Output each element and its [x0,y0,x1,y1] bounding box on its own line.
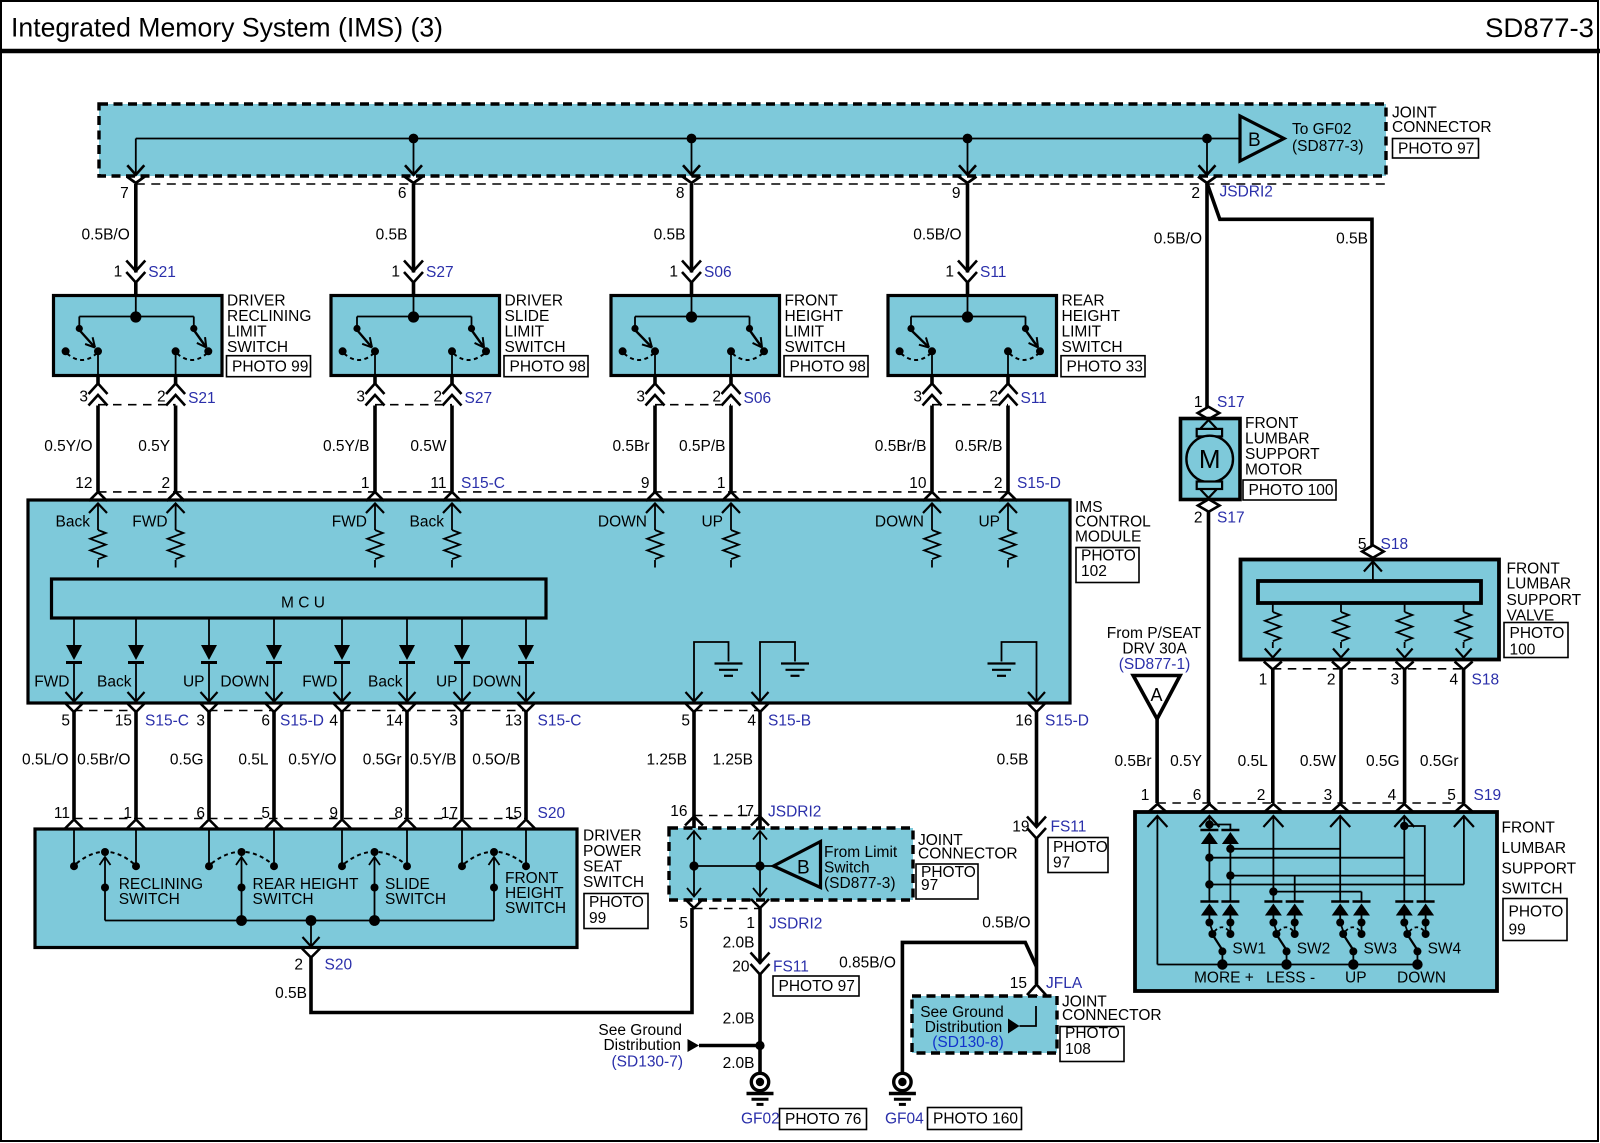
svg-text:0.5W: 0.5W [1300,753,1337,770]
svg-text:7: 7 [120,185,129,202]
svg-text:0.5B/O: 0.5B/O [913,227,961,244]
svg-text:MORE +: MORE + [1194,970,1254,987]
svg-text:3: 3 [913,388,922,405]
svg-text:SUPPORT: SUPPORT [1507,592,1582,609]
svg-text:Integrated Memory System (IMS): Integrated Memory System (IMS) (3) [11,13,443,43]
svg-text:0.5B/O: 0.5B/O [1154,231,1202,248]
svg-text:SWITCH: SWITCH [1062,339,1123,356]
svg-text:DOWN: DOWN [1397,970,1446,987]
svg-text:SW2: SW2 [1297,940,1331,957]
svg-text:1: 1 [123,805,132,822]
svg-text:0.5W: 0.5W [410,438,447,455]
svg-text:S11: S11 [980,264,1006,281]
svg-text:LUMBAR: LUMBAR [1502,840,1567,857]
svg-text:0.5R/B: 0.5R/B [955,438,1002,455]
svg-text:PHOTO 100: PHOTO 100 [1249,482,1334,499]
svg-text:1: 1 [717,475,726,492]
svg-text:1: 1 [945,263,954,280]
svg-text:GF04: GF04 [885,1111,924,1128]
svg-text:11: 11 [54,805,70,822]
svg-text:15: 15 [115,713,132,730]
svg-text:8: 8 [394,805,403,822]
svg-text:LIMIT: LIMIT [227,324,267,341]
svg-text:RECLINING: RECLINING [227,308,311,325]
svg-text:M: M [1199,444,1221,474]
svg-text:PHOTO 98: PHOTO 98 [510,359,586,376]
svg-text:0.5B: 0.5B [1336,231,1368,248]
svg-text:4: 4 [1388,787,1397,804]
svg-text:2: 2 [433,388,442,405]
svg-text:1: 1 [1259,672,1268,689]
svg-text:6: 6 [1193,787,1202,804]
svg-text:4: 4 [1449,672,1458,689]
svg-text:2.0B: 2.0B [723,935,755,952]
svg-text:16: 16 [1015,713,1032,730]
svg-text:FWD: FWD [332,514,367,531]
svg-text:5: 5 [681,713,690,730]
svg-text:S15-C: S15-C [461,475,505,492]
svg-text:DRIVER: DRIVER [583,828,642,845]
svg-text:13: 13 [505,713,522,730]
svg-text:PHOTO: PHOTO [1053,839,1108,856]
svg-text:0.85B/O: 0.85B/O [839,955,896,972]
svg-text:3: 3 [196,713,205,730]
svg-text:6: 6 [261,713,270,730]
svg-text:20: 20 [732,959,750,976]
svg-text:4: 4 [747,713,756,730]
svg-text:SWITCH: SWITCH [505,900,566,917]
svg-text:S27: S27 [465,390,493,407]
svg-text:CONNECTOR: CONNECTOR [1392,119,1492,136]
svg-text:0.5B: 0.5B [997,752,1029,769]
svg-text:3: 3 [449,713,458,730]
svg-text:0.5Br/B: 0.5Br/B [875,438,927,455]
svg-text:PHOTO 98: PHOTO 98 [790,359,866,376]
svg-text:19: 19 [1012,819,1029,836]
svg-text:LIMIT: LIMIT [785,324,825,341]
svg-text:FWD: FWD [34,674,69,691]
svg-text:0.5L: 0.5L [1238,753,1269,770]
svg-text:1: 1 [1141,787,1150,804]
svg-text:0.5G: 0.5G [170,752,204,769]
svg-text:PHOTO 33: PHOTO 33 [1067,359,1143,376]
svg-text:2: 2 [1327,672,1336,689]
svg-text:1.25B: 1.25B [646,752,687,769]
svg-text:From Limit: From Limit [824,844,898,861]
svg-text:FS11: FS11 [1051,819,1087,836]
svg-text:JSDRI2: JSDRI2 [768,804,821,821]
svg-text:S06: S06 [744,390,772,407]
svg-text:1.25B: 1.25B [712,752,753,769]
svg-text:FWD: FWD [302,674,337,691]
svg-text:FWD: FWD [132,514,167,531]
svg-text:6: 6 [196,805,205,822]
svg-text:LIMIT: LIMIT [1062,324,1102,341]
svg-text:0.5Y/O: 0.5Y/O [44,438,92,455]
svg-text:S27: S27 [426,264,454,281]
svg-text:SWITCH: SWITCH [785,339,846,356]
svg-text:Back: Back [368,674,403,691]
svg-text:SWITCH: SWITCH [385,891,446,908]
svg-text:HEIGHT: HEIGHT [1062,308,1121,325]
svg-text:PHOTO: PHOTO [1510,625,1565,642]
svg-text:JFLA: JFLA [1046,975,1083,992]
svg-text:JSDRI2: JSDRI2 [1220,184,1273,201]
svg-text:3: 3 [356,388,365,405]
svg-text:PHOTO 97: PHOTO 97 [779,978,855,995]
svg-text:(SD877-3): (SD877-3) [824,875,896,892]
svg-text:PHOTO: PHOTO [589,894,644,911]
svg-text:SWITCH: SWITCH [583,874,644,891]
svg-text:17: 17 [737,803,754,820]
svg-text:S21: S21 [188,390,216,407]
svg-text:2: 2 [989,388,998,405]
svg-text:0.5Br: 0.5Br [612,438,649,455]
svg-text:S15-C: S15-C [145,713,189,730]
svg-text:Back: Back [56,514,91,531]
svg-text:2.0B: 2.0B [723,1055,755,1072]
svg-text:9: 9 [329,805,338,822]
svg-text:2.0B: 2.0B [723,1011,755,1028]
svg-text:0.5Gr: 0.5Gr [363,752,402,769]
svg-text:S21: S21 [148,264,176,281]
svg-text:DRIVER: DRIVER [227,292,286,309]
svg-text:S06: S06 [704,264,732,281]
svg-text:14: 14 [386,713,404,730]
svg-text:SWITCH: SWITCH [505,339,566,356]
svg-text:S18: S18 [1381,536,1409,553]
svg-text:0.5P/B: 0.5P/B [679,438,726,455]
svg-text:SW4: SW4 [1428,940,1462,957]
svg-text:FRONT: FRONT [785,292,839,309]
svg-text:FRONT: FRONT [1502,820,1556,837]
svg-text:1: 1 [114,263,123,280]
svg-text:17: 17 [441,805,458,822]
svg-text:(SD877-3): (SD877-3) [1292,138,1364,155]
svg-text:CONNECTOR: CONNECTOR [918,846,1018,863]
svg-text:3: 3 [1390,672,1399,689]
svg-text:SUPPORT: SUPPORT [1502,860,1577,877]
svg-text:5: 5 [261,805,270,822]
svg-text:0.5G: 0.5G [1366,753,1400,770]
svg-text:9: 9 [641,475,650,492]
svg-text:PHOTO: PHOTO [1065,1025,1120,1042]
svg-text:DOWN: DOWN [875,514,924,531]
svg-text:PHOTO 99: PHOTO 99 [232,359,308,376]
svg-text:SW1: SW1 [1232,940,1266,957]
svg-text:3: 3 [1324,787,1333,804]
svg-text:DRV 30A: DRV 30A [1122,640,1187,657]
svg-text:PHOTO 160: PHOTO 160 [933,1111,1018,1128]
svg-text:100: 100 [1510,642,1536,659]
svg-text:0.5L/O: 0.5L/O [22,752,69,769]
svg-text:SLIDE: SLIDE [505,308,550,325]
svg-text:Back: Back [410,514,445,531]
svg-text:99: 99 [589,910,606,927]
svg-text:SD877-3: SD877-3 [1485,13,1594,43]
svg-text:2: 2 [1191,185,1200,202]
svg-text:UP: UP [701,514,723,531]
svg-text:PHOTO 76: PHOTO 76 [785,1111,861,1128]
svg-text:B: B [1248,130,1261,151]
svg-text:UP: UP [436,674,458,691]
svg-text:MOTOR: MOTOR [1245,461,1302,478]
svg-text:PHOTO: PHOTO [1081,547,1136,564]
svg-text:S20: S20 [538,805,566,822]
svg-text:Switch: Switch [824,860,870,877]
svg-text:S15-D: S15-D [280,713,324,730]
svg-text:S19: S19 [1474,787,1502,804]
svg-text:0.5Y/B: 0.5Y/B [410,752,457,769]
svg-text:S15-B: S15-B [768,713,811,730]
svg-text:S20: S20 [325,957,353,974]
svg-text:S15-D: S15-D [1045,713,1089,730]
svg-text:UP: UP [978,514,1000,531]
svg-text:SWITCH: SWITCH [253,891,314,908]
svg-text:0.5B: 0.5B [376,227,408,244]
svg-text:SWITCH: SWITCH [1502,881,1563,898]
svg-text:1: 1 [391,263,400,280]
svg-text:PHOTO: PHOTO [1509,904,1564,921]
svg-text:B: B [797,858,810,879]
svg-text:LESS -: LESS - [1266,970,1315,987]
svg-text:1: 1 [746,915,755,932]
svg-text:6: 6 [398,185,407,202]
svg-text:15: 15 [1010,975,1027,992]
svg-text:DRIVER: DRIVER [505,292,564,309]
svg-text:S15-D: S15-D [1017,475,1061,492]
svg-text:MODULE: MODULE [1075,528,1141,545]
svg-text:0.5Y/O: 0.5Y/O [288,752,336,769]
svg-text:3: 3 [79,388,88,405]
svg-text:DOWN: DOWN [472,674,521,691]
svg-text:M C U: M C U [281,595,325,612]
svg-text:SWITCH: SWITCH [119,891,180,908]
svg-text:SEAT: SEAT [583,859,623,876]
svg-text:2: 2 [1194,509,1203,526]
svg-text:CONNECTOR: CONNECTOR [1062,1007,1162,1024]
svg-text:2: 2 [1257,787,1266,804]
svg-text:2: 2 [994,475,1003,492]
svg-text:0.5B/O: 0.5B/O [982,915,1030,932]
svg-text:(SD130-7): (SD130-7) [612,1054,684,1071]
svg-text:SWITCH: SWITCH [227,339,288,356]
svg-text:POWER: POWER [583,843,642,860]
svg-text:15: 15 [505,805,522,822]
svg-text:FS11: FS11 [773,959,809,976]
svg-text:10: 10 [909,475,927,492]
svg-text:1: 1 [361,475,370,492]
svg-text:2: 2 [294,957,303,974]
svg-text:4: 4 [329,713,338,730]
svg-text:(SD877-1): (SD877-1) [1119,656,1191,673]
svg-text:108: 108 [1065,1041,1091,1058]
svg-text:REAR: REAR [1062,292,1105,309]
svg-text:UP: UP [1345,970,1367,987]
svg-text:2: 2 [161,475,170,492]
svg-text:1: 1 [669,263,678,280]
svg-text:0.5Y/B: 0.5Y/B [323,438,370,455]
svg-text:DOWN: DOWN [598,514,647,531]
svg-text:Distribution: Distribution [603,1037,681,1054]
svg-text:2: 2 [157,388,166,405]
svg-text:S15-C: S15-C [538,713,582,730]
svg-text:102: 102 [1081,563,1107,580]
svg-text:JSDRI2: JSDRI2 [769,916,822,933]
svg-text:11: 11 [430,475,446,492]
svg-text:9: 9 [952,185,961,202]
svg-text:16: 16 [670,803,687,820]
svg-text:HEIGHT: HEIGHT [785,308,844,325]
svg-text:S17: S17 [1217,394,1245,411]
svg-text:97: 97 [1053,854,1070,871]
svg-text:UP: UP [183,674,205,691]
svg-text:0.5B/O: 0.5B/O [82,227,130,244]
svg-text:5: 5 [1447,787,1456,804]
svg-text:0.5Y: 0.5Y [138,438,170,455]
svg-text:To GF02: To GF02 [1292,121,1351,138]
svg-text:S18: S18 [1472,672,1500,689]
svg-text:0.5Br: 0.5Br [1114,753,1151,770]
svg-text:12: 12 [75,475,92,492]
svg-text:LIMIT: LIMIT [505,324,545,341]
svg-text:0.5B: 0.5B [654,227,686,244]
svg-text:0.5Y: 0.5Y [1170,753,1202,770]
svg-text:S11: S11 [1021,390,1047,407]
svg-text:Back: Back [97,674,132,691]
svg-text:0.5Gr: 0.5Gr [1420,753,1459,770]
svg-text:5: 5 [61,713,70,730]
svg-text:A: A [1151,685,1163,705]
svg-text:3: 3 [636,388,645,405]
svg-text:PHOTO 97: PHOTO 97 [1398,141,1474,158]
svg-text:DOWN: DOWN [220,674,269,691]
svg-text:S17: S17 [1217,509,1245,526]
svg-text:0.5B: 0.5B [275,985,307,1002]
svg-text:SW3: SW3 [1364,940,1398,957]
svg-text:0.5Br/O: 0.5Br/O [77,752,130,769]
svg-text:LUMBAR: LUMBAR [1507,576,1572,593]
svg-text:(SD130-8): (SD130-8) [932,1034,1004,1051]
svg-text:1: 1 [1194,394,1203,411]
svg-text:0.5O/B: 0.5O/B [472,752,520,769]
svg-text:2: 2 [712,388,721,405]
svg-text:97: 97 [921,877,938,894]
svg-text:99: 99 [1509,922,1526,939]
svg-text:GF02: GF02 [741,1111,780,1128]
svg-text:0.5L: 0.5L [238,752,269,769]
svg-text:8: 8 [676,185,685,202]
svg-text:5: 5 [679,915,688,932]
